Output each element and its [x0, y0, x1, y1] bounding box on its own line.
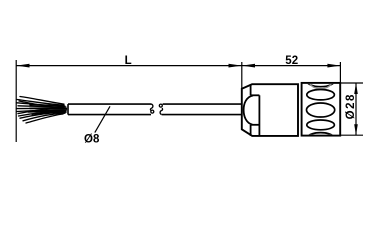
svg-text:L: L	[125, 55, 132, 67]
svg-text:52: 52	[285, 55, 298, 67]
svg-text:Ø8: Ø8	[84, 133, 100, 145]
svg-text:Ø28: Ø28	[345, 93, 357, 119]
